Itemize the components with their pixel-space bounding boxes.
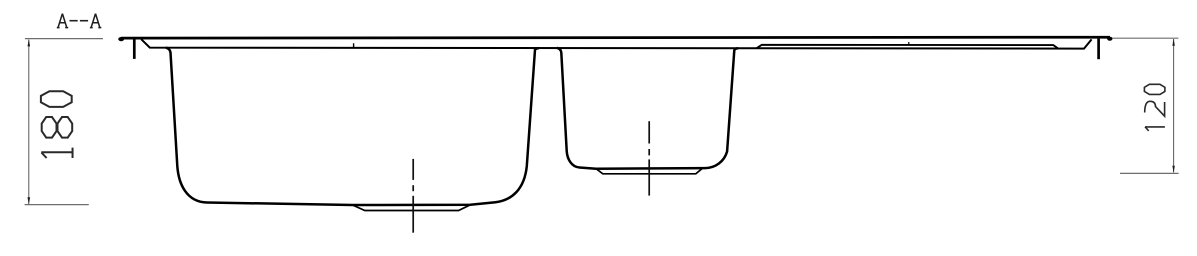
- dimension text 120 (rotated, drawn in screen coords): [1144, 84, 1165, 131]
- arrow right top: [1172, 39, 1175, 46]
- right rim lip: [1097, 39, 1100, 60]
- digit 8 of 180: [42, 117, 57, 138]
- big bowl profile: [166, 48, 539, 205]
- digit 0 of 120: [1144, 84, 1165, 94]
- left rim lip: [133, 39, 136, 59]
- small bowl profile: [557, 48, 738, 169]
- digit 0 of 180: [41, 91, 72, 107]
- small bowl drain recess: [596, 168, 703, 174]
- small bowl centerline: [648, 121, 650, 195]
- digit 1 of 180: [41, 148, 72, 158]
- section label letter A (left): [57, 14, 68, 28]
- rim underside line with end diagonals: [141, 39, 1091, 48]
- dimension line right (120): [1173, 39, 1175, 172]
- digit 1 of 120: [1145, 127, 1165, 131]
- big bowl centerline: [412, 159, 414, 233]
- weld tick right: [908, 42, 910, 45]
- section label letter A (right): [90, 14, 101, 28]
- extension line bottom right: [1120, 172, 1179, 174]
- sink rim top surface line: [121, 36, 1110, 40]
- arrow right bottom: [1172, 166, 1175, 173]
- dashes of section label: [70, 20, 78, 22]
- weld tick left: [353, 43, 355, 48]
- extension line top right: [1113, 37, 1179, 39]
- dimension line left (180): [28, 40, 30, 204]
- big bowl drain recess: [353, 205, 471, 211]
- rim right end ball: [1107, 37, 1112, 41]
- digit 2 of 120: [1145, 101, 1165, 116]
- arrow left bottom: [28, 197, 31, 204]
- arrow left top: [28, 39, 31, 46]
- dimension text 180 (rotated, drawn in screen coords): [41, 91, 73, 158]
- extension line bottom left: [25, 204, 89, 206]
- drainboard recessed surface line: [757, 45, 1058, 49]
- rim left end ball: [118, 37, 124, 41]
- extension line top left: [25, 38, 103, 40]
